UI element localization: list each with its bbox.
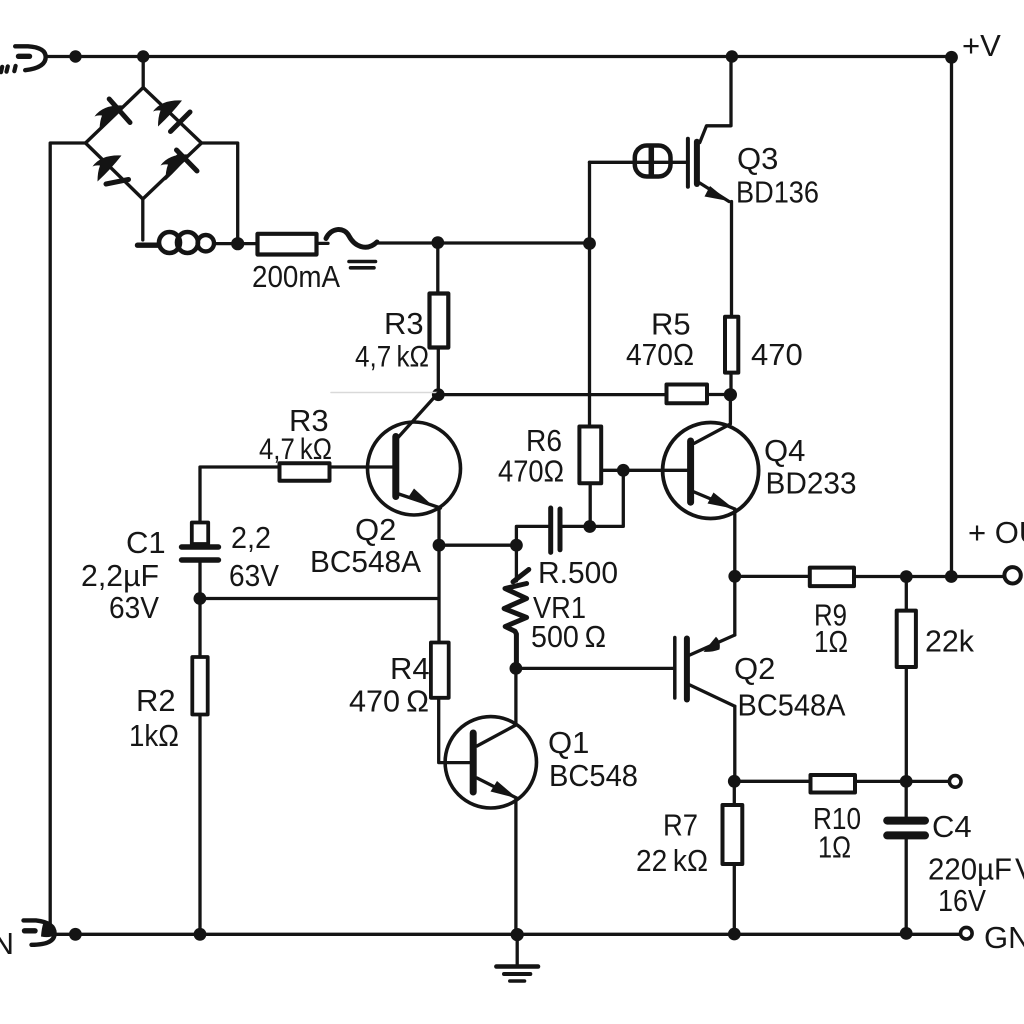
wire VR1 top lead <box>515 545 518 581</box>
node dot R7 bottom <box>728 928 741 941</box>
wire 22k top lead <box>905 577 908 611</box>
wire Q2b collector with arrow <box>690 635 735 655</box>
wire Q2 emitter down <box>437 508 440 545</box>
resistor R3 horizontal body <box>280 463 330 481</box>
svg-text:470Ω: 470Ω <box>498 454 564 489</box>
wire Q2 base to R3h <box>330 465 394 468</box>
svg-text:4,7 kΩ: 4,7 kΩ <box>259 433 332 466</box>
node dot R3 top <box>431 236 444 249</box>
node dot 22k top <box>900 570 913 583</box>
wire +V right rail down to output node <box>950 57 953 577</box>
diode D3 bottom-left of bridge <box>93 155 122 181</box>
fuse F1 body <box>258 234 317 255</box>
svg-text:220µF: 220µF <box>928 852 1012 887</box>
wire R5h to R5 bottom node <box>707 393 730 396</box>
wire Q2b emitter down <box>733 706 736 781</box>
fuse holder lead dash <box>138 242 159 247</box>
wire VR1 node up to coupling cap <box>516 526 548 545</box>
wire fuse to break squiggle <box>317 242 329 245</box>
node dot Q2 emitter <box>433 539 446 552</box>
wire VR1 bottom node to Q2b base <box>516 667 673 670</box>
node dot +V join <box>945 570 958 583</box>
svg-text:Q3: Q3 <box>737 141 778 176</box>
wire R3 top lead <box>436 243 439 294</box>
svg-text:+ OUT: + OUT <box>968 515 1024 550</box>
wire Q4 base from R6 body <box>601 469 687 472</box>
svg-text:1kΩ: 1kΩ <box>129 718 179 753</box>
wire Q4 emitter down rail <box>733 509 736 635</box>
capacitor C1 top post <box>192 523 208 545</box>
wire bridge top lead <box>142 57 145 89</box>
node dot cap / R6 bottom <box>583 520 596 533</box>
Q3 gate bead <box>635 146 671 177</box>
svg-text:200mA: 200mA <box>252 259 340 294</box>
node dot bottom rail near IN <box>69 928 82 941</box>
svg-text:16V: 16V <box>938 883 986 918</box>
node dot +V corner <box>945 51 958 64</box>
bridge rectifier diamond <box>86 88 202 200</box>
ground symbol <box>516 935 519 965</box>
svg-text:BC548: BC548 <box>549 758 638 793</box>
svg-text:IN: IN <box>0 926 14 961</box>
wire Q3 collector to top rail <box>700 57 731 143</box>
wire R7 bottom lead <box>733 864 736 934</box>
wire Q1 emitter down to ground rail <box>514 799 517 935</box>
svg-text:2,2: 2,2 <box>231 520 271 555</box>
node dot VR1 top <box>510 539 523 552</box>
wire coupling cap right to R6 node <box>562 525 590 528</box>
wire bottom ground rail <box>55 933 961 936</box>
node dot R2 bottom <box>194 928 207 941</box>
svg-text:R2: R2 <box>136 683 176 718</box>
node dot fuse left <box>231 237 244 250</box>
fuse holder loops <box>159 232 180 253</box>
svg-text:Q2: Q2 <box>734 651 775 686</box>
diode D1 top-left of bridge <box>95 105 124 131</box>
svg-text:470: 470 <box>751 337 803 372</box>
transistor Q2 circle <box>368 422 461 515</box>
node dot C1 bottom <box>194 592 207 605</box>
svg-text:+V: +V <box>962 28 1001 63</box>
svg-text:470Ω: 470Ω <box>626 337 694 372</box>
potentiometer VR1 zigzag <box>504 584 526 669</box>
svg-text:4,7 kΩ: 4,7 kΩ <box>355 341 429 374</box>
wire R6 node to Q4 base tap <box>590 470 624 526</box>
wire Q2 collector diagonal <box>396 394 438 440</box>
wire Q3 gate horizontal <box>590 161 686 164</box>
wire Q4 collector <box>694 395 730 444</box>
node dot C4 top <box>900 775 913 788</box>
terminal R10 open circle <box>949 776 961 788</box>
transistor Q2 base bar <box>392 437 399 497</box>
wire R3h left lead down to C1 <box>200 467 280 523</box>
transistor Q1 base bar <box>470 733 477 792</box>
break squiggle <box>326 230 377 248</box>
svg-text:R3: R3 <box>384 306 424 341</box>
connector J1 AC input top-left <box>15 46 46 70</box>
svg-text:22 kΩ: 22 kΩ <box>636 843 708 878</box>
ellipsis dots left of J1 <box>1 66 16 72</box>
transistor Q1 circle <box>445 717 536 808</box>
wire R7 node to R10 <box>734 780 810 783</box>
svg-text:BD136: BD136 <box>736 175 819 210</box>
capacitor C4 plates <box>887 821 925 836</box>
resistor R5 horizontal body (unlabeled) <box>667 385 708 404</box>
transistor Q4 circle <box>663 423 759 519</box>
coupling capacitor plates <box>551 508 560 552</box>
diode D2 top-right of bridge <box>153 100 182 126</box>
svg-text:2,2µF: 2,2µF <box>81 558 159 593</box>
svg-text:500 Ω: 500 Ω <box>531 619 606 654</box>
transistor Q2b bars <box>673 638 677 699</box>
wire C1 bottom lead <box>198 563 201 599</box>
transistor Q1 emitter with arrow <box>477 778 518 799</box>
wire R5 bottom lead <box>729 373 732 395</box>
resistor R10 body <box>811 775 856 793</box>
svg-text:V: V <box>1015 852 1024 887</box>
node dot C4 bottom <box>900 927 913 940</box>
wire bridge bottom lead <box>141 199 144 240</box>
node dot top rail A <box>69 50 81 62</box>
svg-text:470 Ω: 470 Ω <box>349 684 429 719</box>
resistor R2 body <box>192 657 207 715</box>
transistor Q3 bars <box>686 139 690 187</box>
svg-text:BC548A: BC548A <box>738 688 846 723</box>
wire R6 bottom lead <box>589 483 592 526</box>
svg-text:R.500: R.500 <box>538 555 618 590</box>
svg-text:C4: C4 <box>932 809 972 844</box>
resistor R5 body <box>725 317 738 373</box>
diode D4 bottom-right of bridge <box>161 152 190 181</box>
terminal GND open circle <box>961 927 973 939</box>
VR1 wiper tick <box>513 570 529 582</box>
wire Q3 emitter down to R5 <box>730 202 733 317</box>
resistor R9 body <box>810 568 854 587</box>
node dot Q1 emitter ground <box>511 928 524 941</box>
resistor R4 body <box>431 643 449 698</box>
node dot Q4 base tap <box>617 464 630 477</box>
transistor Q4 base bar <box>687 441 694 502</box>
transistor Q2b emitter <box>690 685 735 706</box>
wire R3 bottom lead <box>437 348 440 395</box>
node dot VR1 bottom <box>510 662 523 675</box>
transistor Q4 emitter with arrow <box>693 492 735 510</box>
faint artifact line <box>331 392 437 394</box>
svg-text:Q1: Q1 <box>548 725 589 760</box>
wire C4 leads <box>905 781 908 933</box>
wire Q1 collector <box>477 668 516 746</box>
wire Q2 emitter node to VR1 node <box>439 544 516 547</box>
terminal +OUT open circle <box>1004 567 1020 583</box>
wire unregulated rail to R3 and Q3 gate branch <box>377 241 590 244</box>
wire C1 node to R4 line <box>200 597 439 600</box>
node dot top rail B (bridge tap) <box>137 50 149 62</box>
transistor Q3 emitter with arrow <box>700 183 729 202</box>
svg-text:Q2: Q2 <box>355 512 396 547</box>
svg-text:63V: 63V <box>229 558 279 593</box>
equals mark under squiggle <box>349 262 376 268</box>
svg-text:BD233: BD233 <box>766 466 857 501</box>
resistor R3 vertical body <box>430 294 449 348</box>
svg-text:1Ω: 1Ω <box>818 830 851 865</box>
wire bridge right corner to fuse node <box>202 143 238 244</box>
wire R4 bottom to Q1 base <box>439 698 470 763</box>
wire Q3 gate branch vertical <box>588 162 591 426</box>
node dot Q3 branch <box>583 237 596 250</box>
svg-text:C1: C1 <box>126 525 166 560</box>
wire top +V rail <box>46 55 952 58</box>
node dot R5 bottom <box>724 388 737 401</box>
svg-text:BC548A: BC548A <box>310 544 421 579</box>
svg-text:22k: 22k <box>925 624 974 659</box>
node dot R7 top <box>728 775 741 788</box>
resistor 22k body <box>897 611 916 667</box>
node dot output node left <box>728 570 741 583</box>
resistor R6 body <box>579 427 601 484</box>
node dot top rail C (Q3 collector tap) <box>726 50 738 62</box>
node dot R3 bottom <box>432 388 445 401</box>
connector J2 IN bottom-left <box>24 920 55 944</box>
wire loops to fuse body <box>214 242 258 245</box>
wire R7 top lead <box>733 781 736 805</box>
svg-text:R4: R4 <box>390 651 430 686</box>
wire R4 top lead from Q2 emitter node <box>437 545 440 642</box>
wire R2 bottom lead <box>198 715 201 935</box>
wire output node to R9 <box>735 575 810 578</box>
wire node to R5h resistor <box>438 393 666 396</box>
svg-text:GND: GND <box>984 920 1024 955</box>
wire C1 node down to R2 <box>198 599 201 658</box>
transistor Q2 emitter with arrow <box>396 493 441 508</box>
wire R9 to +OUT terminal <box>854 575 1004 578</box>
wire R10 to terminal <box>855 780 949 783</box>
svg-text:Q4: Q4 <box>764 433 805 468</box>
capacitor C1 plates <box>182 547 219 560</box>
wire left rail (bridge left corner down to IN connector) <box>50 143 85 927</box>
svg-text:R7: R7 <box>663 808 698 843</box>
svg-text:63V: 63V <box>109 590 159 625</box>
svg-text:1Ω: 1Ω <box>814 624 848 659</box>
resistor R7 body <box>723 805 743 864</box>
wire 22k bottom lead <box>905 667 908 781</box>
